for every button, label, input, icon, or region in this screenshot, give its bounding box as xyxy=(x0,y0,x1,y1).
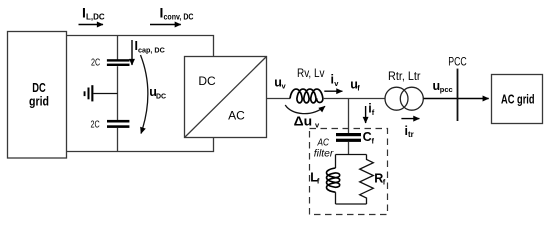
node PCC xyxy=(457,69,459,121)
wire transformer to AC grid xyxy=(424,98,489,100)
transformer T1 xyxy=(385,87,423,110)
svg-text:Rv, Lv: Rv, Lv xyxy=(297,68,325,80)
wire filter loop bottom rail xyxy=(336,203,367,205)
svg-text:filter: filter xyxy=(314,147,334,159)
AC grid box xyxy=(492,75,543,124)
label R_f xyxy=(374,171,385,186)
wire C_f to filter loop xyxy=(348,142,350,155)
svg-text:v: v xyxy=(282,82,287,91)
wire capacitor branch lower xyxy=(117,128,119,152)
wire filter loop left upper xyxy=(335,155,337,169)
wire filter loop left lower xyxy=(335,192,337,204)
AC filter dashed box xyxy=(310,129,388,215)
wire filter loop top rail xyxy=(336,154,367,156)
svg-text:f: f xyxy=(357,84,360,93)
svg-text:AC grid: AC grid xyxy=(501,93,535,107)
svg-text:Rtr, Ltr: Rtr, Ltr xyxy=(388,71,421,83)
svg-text:tr: tr xyxy=(408,130,414,139)
arrow i_tr xyxy=(401,118,419,120)
wire bottom DC bus xyxy=(67,138,214,152)
label I_cap,DC xyxy=(135,39,165,54)
wire C_f branch xyxy=(348,99,350,134)
label u_v xyxy=(274,75,286,90)
wire capacitor branch upper xyxy=(117,36,119,61)
resistor R_f xyxy=(360,155,374,205)
svg-text:f: f xyxy=(317,177,320,186)
svg-text:v: v xyxy=(334,79,339,88)
arrow i_v xyxy=(324,90,342,92)
label L_f xyxy=(310,170,320,185)
svg-text:Δu: Δu xyxy=(294,114,313,128)
svg-text:f: f xyxy=(372,108,375,117)
svg-text:conv, DC: conv, DC xyxy=(164,13,194,22)
svg-text:PCC: PCC xyxy=(448,57,467,69)
svg-text:pcc: pcc xyxy=(440,85,453,94)
label I_L,DC xyxy=(82,4,105,21)
capacitor C_f xyxy=(336,133,361,142)
capacitor 2C (bottom) xyxy=(107,120,129,128)
label i_f xyxy=(368,102,374,117)
arrow I_L,DC xyxy=(79,24,104,26)
wire top DC bus xyxy=(67,36,214,57)
svg-text:C: C xyxy=(363,130,372,144)
label u_DC xyxy=(149,85,166,100)
svg-text:cap, DC: cap, DC xyxy=(138,45,165,54)
wire between capacitors xyxy=(117,66,119,120)
inductor L_f xyxy=(327,168,340,192)
arrow Δu_v (curved) xyxy=(285,105,325,114)
arrow I_conv,DC xyxy=(150,24,181,26)
svg-text:2C: 2C xyxy=(91,120,100,131)
svg-text:DC: DC xyxy=(32,81,46,95)
svg-text:DC: DC xyxy=(198,74,216,88)
label C_f xyxy=(363,130,375,145)
label Δu_v xyxy=(294,114,320,129)
label u_pcc xyxy=(433,79,453,94)
label u_f xyxy=(350,77,360,92)
label AC filter xyxy=(314,137,334,160)
svg-text:L,DC: L,DC xyxy=(86,13,105,22)
arrow I_cap,DC xyxy=(131,40,133,65)
converter U1 (DC/AC) xyxy=(185,57,267,138)
arrow i_f xyxy=(365,106,367,123)
svg-text:AC: AC xyxy=(228,108,245,122)
ground xyxy=(84,85,118,101)
wire inductor to transformer xyxy=(323,98,385,100)
svg-text:2C: 2C xyxy=(91,57,100,68)
svg-text:f: f xyxy=(372,136,375,145)
label I_conv,DC xyxy=(160,4,194,21)
label i_v xyxy=(331,73,340,88)
arrow u_DC (curved) xyxy=(141,55,148,134)
DC grid box xyxy=(8,32,67,159)
svg-text:f: f xyxy=(383,178,386,187)
svg-text:DC: DC xyxy=(156,94,166,101)
label i_tr xyxy=(405,124,414,139)
wire u_v (converter to inductor) xyxy=(267,98,291,100)
inductor Rv, Lv xyxy=(290,89,323,103)
svg-text:grid: grid xyxy=(29,95,49,109)
capacitor 2C (top) xyxy=(107,59,130,66)
